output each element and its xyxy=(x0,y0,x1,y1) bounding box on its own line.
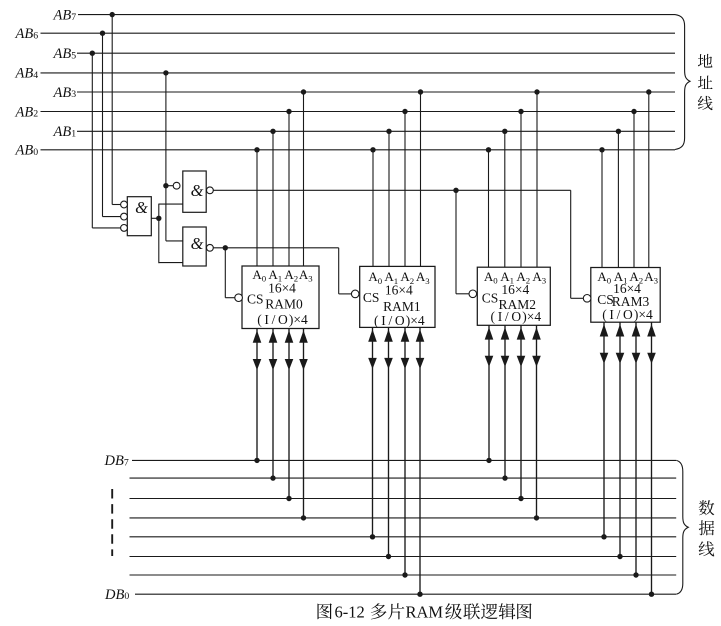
U2 output bubble xyxy=(207,187,214,194)
wire RAM1 I/O1 to DB2 (bidirectional) xyxy=(384,327,393,559)
svg-text:CS: CS xyxy=(597,292,614,307)
caption title xyxy=(371,603,387,619)
wire node A to U3 lower input xyxy=(159,262,183,264)
data line DB4 xyxy=(130,517,677,519)
svg-text:RAM1: RAM1 xyxy=(383,299,421,314)
wire U2 output to RAM2/RAM3 CS xyxy=(213,188,570,193)
wire AB6 to U1 input 2 xyxy=(100,31,121,217)
data line DB7 xyxy=(132,459,676,461)
wire RAM1 I/O3 to DB0 (bidirectional) xyxy=(416,327,425,597)
RAM1 CS bubble xyxy=(351,290,359,298)
wire RAM2 pin A2 to AB2 xyxy=(518,109,523,267)
svg-text:( I / O )×4: ( I / O )×4 xyxy=(491,309,542,324)
wire RAM3 pin A0 to AB0 xyxy=(599,147,604,267)
wire RAM3 I/O2 to DB1 (bidirectional) xyxy=(632,322,641,578)
wire RAM3 I/O0 to DB3 (bidirectional) xyxy=(600,322,609,539)
wire node A to U2 lower input xyxy=(159,203,183,205)
address line AB3 xyxy=(77,91,675,93)
svg-text:&: & xyxy=(191,181,204,200)
wire RAM0 pin A2 to AB2 xyxy=(286,109,291,266)
wire RAM0 pin A3 to AB3 xyxy=(301,89,306,266)
RAM2 CS bubble xyxy=(469,290,477,298)
wire RAM2 I/O2 to DB5 (bidirectional) xyxy=(517,325,526,501)
wire RAM2 pin A0 to AB0 xyxy=(486,147,491,267)
wire AB7 to U1 input 1 xyxy=(110,12,121,205)
wire branch to RAM3 CS xyxy=(571,190,584,298)
address line AB5 xyxy=(77,52,675,54)
wire RAM3 pin A2 to AB2 xyxy=(631,109,636,268)
wire AB4 to U2 inverted input xyxy=(166,185,173,187)
wire RAM3 pin A3 to AB3 xyxy=(646,89,651,267)
address line AB0 xyxy=(41,149,676,151)
wire RAM1 pin A1 to AB1 xyxy=(386,129,391,267)
wire RAM1 pin A3 to AB3 xyxy=(418,89,423,266)
data line DB5 xyxy=(130,498,677,500)
wire RAM0 pin A1 to AB1 xyxy=(270,129,275,266)
wire RAM3 I/O1 to DB2 (bidirectional) xyxy=(616,322,625,559)
svg-text:&: & xyxy=(135,198,148,217)
wire RAM2 pin A1 to AB1 xyxy=(502,129,507,268)
svg-text:CS: CS xyxy=(482,290,499,305)
wire RAM0 I/O2 to DB5 (bidirectional) xyxy=(285,329,294,502)
gate U3 (lower AND gate) xyxy=(183,227,206,266)
svg-text:( I / O )×4: ( I / O )×4 xyxy=(257,312,308,327)
address line AB2 xyxy=(41,111,676,113)
wire U3 output to RAM0/RAM1 CS xyxy=(213,245,338,250)
RAM chip U4 RAM0 xyxy=(242,266,319,329)
wire branch to RAM0 CS xyxy=(225,248,235,298)
svg-text:16×4: 16×4 xyxy=(385,282,413,297)
RAM chip U7 RAM3 xyxy=(591,268,660,323)
U2 input bubble xyxy=(173,182,180,189)
data line DB1 xyxy=(130,574,677,576)
wire RAM3 pin A1 to AB1 xyxy=(616,129,621,268)
svg-text:( I / O )×4: ( I / O )×4 xyxy=(602,307,653,322)
svg-text:CS: CS xyxy=(247,291,264,306)
RAM0 CS bubble xyxy=(235,294,243,302)
wire RAM1 pin A2 to AB2 xyxy=(402,109,407,267)
wire node A vertical xyxy=(158,204,160,264)
gate U2 (upper AND gate) xyxy=(183,171,206,212)
wire RAM1 I/O0 to DB3 (bidirectional) xyxy=(368,327,377,539)
wire AB5 to U1 input 3 xyxy=(90,51,121,228)
wire U1 output to node A xyxy=(151,216,161,221)
svg-text:RAM: RAM xyxy=(406,603,444,622)
brace for data bus xyxy=(676,460,688,594)
svg-text:6-12: 6-12 xyxy=(335,603,365,622)
svg-text:&: & xyxy=(191,234,204,253)
wire branch to RAM1 CS xyxy=(339,248,352,294)
RAM3 CS bubble xyxy=(583,295,591,303)
svg-text:16×4: 16×4 xyxy=(268,280,296,295)
wire AB4 vertical xyxy=(163,70,168,241)
U1 input bubble 3 xyxy=(121,225,128,232)
svg-text:CS: CS xyxy=(363,290,380,305)
wire RAM2 I/O1 to DB6 (bidirectional) xyxy=(501,325,510,481)
wire AB4 to U3 upper input xyxy=(166,240,183,242)
data line DB6 xyxy=(130,477,677,479)
label data-bus (vertical) xyxy=(699,500,714,515)
U1 input bubble 2 xyxy=(121,213,128,220)
wire RAM0 I/O0 to DB7 (bidirectional) xyxy=(253,329,262,464)
label address-bus (vertical) xyxy=(698,54,713,68)
data line DB2 xyxy=(130,556,677,558)
wire RAM1 I/O2 to DB1 (bidirectional) xyxy=(401,327,410,577)
data line DB0 xyxy=(135,593,676,595)
wire RAM0 I/O1 to DB6 (bidirectional) xyxy=(269,329,278,481)
ellipsis dashed line (more data lines) xyxy=(111,489,113,556)
address line AB4 xyxy=(41,72,676,74)
wire RAM2 I/O0 to DB7 (bidirectional) xyxy=(485,325,494,463)
gate U1 (AND gate, 3 inverted inputs) xyxy=(127,197,151,236)
RAM chip U6 RAM2 xyxy=(477,267,550,325)
wire RAM1 pin A0 to AB0 xyxy=(370,147,375,266)
data line DB3 xyxy=(130,536,677,538)
wire RAM0 I/O3 to DB4 (bidirectional) xyxy=(299,329,308,521)
wire RAM2 I/O3 to DB4 (bidirectional) xyxy=(532,325,541,520)
svg-text:( I / O )×4: ( I / O )×4 xyxy=(374,313,425,328)
wire RAM2 pin A3 to AB3 xyxy=(534,89,539,267)
U3 output bubble xyxy=(207,244,214,251)
wire RAM0 pin A0 to AB0 xyxy=(254,147,259,266)
address line AB6 xyxy=(41,32,676,34)
caption figure number xyxy=(317,603,331,619)
brace for address bus xyxy=(675,15,690,150)
svg-text:RAM0: RAM0 xyxy=(265,296,303,311)
address line AB7 xyxy=(78,14,675,16)
address line AB1 xyxy=(77,130,675,132)
wire branch to RAM2 CS xyxy=(456,190,469,293)
svg-text:16×4: 16×4 xyxy=(501,282,529,297)
RAM chip U5 RAM1 xyxy=(360,266,435,327)
U1 input bubble 1 xyxy=(121,201,128,208)
wire RAM3 I/O3 to DB0 (bidirectional) xyxy=(647,322,656,597)
